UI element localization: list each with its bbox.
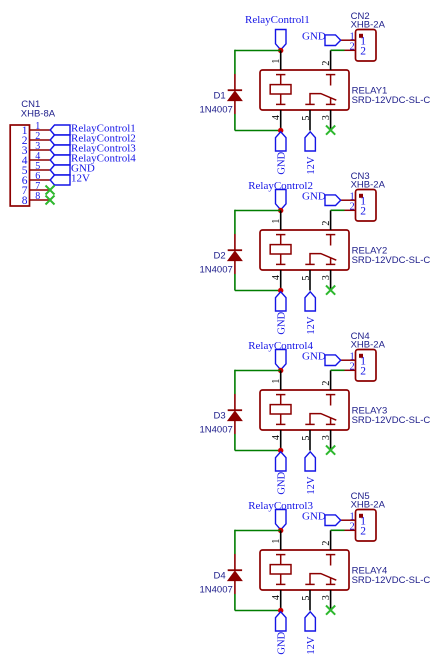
no-connect X at relay RELAY3 pin 3 <box>326 446 335 455</box>
svg-text:2: 2 <box>360 526 366 538</box>
junction dot at relay RELAY4 pin 4 / GND node <box>278 608 283 613</box>
svg-text:2: 2 <box>350 521 355 532</box>
power flag GND at CN3 pin 1 <box>325 195 341 206</box>
connector CN1 pin 4 <box>30 159 51 161</box>
net flag 12V at CN1 pin 6 <box>50 175 70 185</box>
svg-text:GND: GND <box>302 351 326 363</box>
relay RELAY4 body <box>260 550 349 590</box>
net flag RelayControl2 pointing down <box>276 190 287 210</box>
wire CN2 pin 2 to relay pin 2 <box>331 49 345 51</box>
svg-text:2: 2 <box>350 361 355 372</box>
relay RELAY3 switch contacts <box>305 395 336 425</box>
power flag 12V below relay RELAY4 <box>305 612 315 631</box>
svg-text:D4: D4 <box>214 570 226 581</box>
relay RELAY1 pin 3 <box>330 110 332 130</box>
svg-text:4: 4 <box>271 435 282 440</box>
svg-text:GND: GND <box>302 31 326 43</box>
power flag GND below relay RELAY4 <box>276 612 287 631</box>
diode D2 1N4007 <box>228 234 242 274</box>
svg-text:5: 5 <box>301 436 312 441</box>
svg-text:SRD-12VDC-SL-C: SRD-12VDC-SL-C <box>352 575 431 586</box>
wire CN3 pin 2 to relay pin 2 <box>331 209 345 211</box>
svg-text:SRD-12VDC-SL-C: SRD-12VDC-SL-C <box>352 255 431 266</box>
relay RELAY4 pin 2 <box>330 530 332 550</box>
connector CN2 pin 1 <box>340 39 356 41</box>
svg-text:3: 3 <box>321 115 332 120</box>
connector CN5 body <box>356 510 377 542</box>
relay RELAY2 pin 3 <box>330 270 332 290</box>
connector CN2 pin-1 marker <box>359 34 363 38</box>
junction dot at RelayControl2 node <box>278 208 283 213</box>
svg-text:2: 2 <box>350 41 355 52</box>
relay RELAY2 pin 2 <box>330 210 332 230</box>
no-connect X at relay RELAY1 pin 3 <box>326 126 335 135</box>
wire down to diode D2 cathode (vertical) <box>234 210 236 234</box>
power flag GND at CN4 pin 1 <box>325 355 341 366</box>
svg-text:8: 8 <box>35 191 40 202</box>
junction dot at RelayControl1 node <box>278 48 283 53</box>
relay RELAY1 pin 5 <box>309 110 311 131</box>
connector CN2 pin 2 <box>345 49 356 51</box>
wire RelayControl2 node to diode D2 cathode (horizontal) <box>235 210 281 212</box>
svg-text:D3: D3 <box>214 410 226 421</box>
relay RELAY1 body <box>260 70 349 110</box>
power flag GND below relay RELAY2 <box>276 292 287 311</box>
connector CN1 body <box>10 125 29 206</box>
wire down to diode D3 cathode (vertical) <box>234 370 236 394</box>
wire CN5 pin 2 to relay pin 2 <box>331 529 345 531</box>
wire diode D3 anode to relay pin 4 (horizontal) <box>235 450 281 452</box>
connector CN4 pin-1 marker <box>359 354 363 358</box>
svg-text:5: 5 <box>301 276 312 281</box>
svg-text:2: 2 <box>321 221 332 226</box>
svg-text:2: 2 <box>360 206 366 218</box>
svg-text:GND: GND <box>276 311 287 334</box>
relay RELAY3 pin 4 <box>280 430 282 451</box>
svg-text:5: 5 <box>301 596 312 601</box>
connector CN5 pin 1 <box>340 519 356 521</box>
wire RelayControl4 node to diode D3 cathode (horizontal) <box>235 370 281 372</box>
connector CN1 pin 2 <box>30 139 51 141</box>
svg-text:SRD-12VDC-SL-C: SRD-12VDC-SL-C <box>352 95 431 106</box>
svg-text:1N4007: 1N4007 <box>200 424 233 435</box>
connector CN1 pin 7 <box>30 189 51 191</box>
connector CN1 pin 8 <box>30 199 51 201</box>
connector CN3 pin 1 <box>340 199 356 201</box>
relay RELAY4 pin 4 <box>280 590 282 611</box>
relay RELAY4 pin 5 <box>309 590 311 611</box>
svg-text:XHB-8A: XHB-8A <box>21 109 56 120</box>
wire diode D2 anode down (vertical) <box>234 274 236 291</box>
svg-text:GND: GND <box>302 191 326 203</box>
net flag RelayControl3 pointing down <box>276 510 287 530</box>
net flag RelayControl3 at CN1 pin 3 <box>50 145 70 155</box>
relay RELAY1 pin 2 <box>330 50 332 70</box>
svg-text:1: 1 <box>271 59 282 64</box>
wire diode D4 anode down (vertical) <box>234 594 236 611</box>
diode D1 1N4007 <box>228 74 242 114</box>
relay RELAY1 switch contacts <box>305 75 336 105</box>
relay RELAY3 coil <box>270 395 291 425</box>
svg-text:2: 2 <box>321 541 332 546</box>
svg-text:3: 3 <box>321 435 332 440</box>
relay RELAY2 pin 4 <box>280 270 282 291</box>
svg-text:RelayControl1: RelayControl1 <box>245 14 310 26</box>
connector CN1 pin 6 <box>30 179 51 181</box>
svg-text:D2: D2 <box>214 250 226 261</box>
svg-text:12V: 12V <box>306 476 317 495</box>
power flag GND below relay RELAY3 <box>276 452 287 471</box>
svg-text:2: 2 <box>321 61 332 66</box>
svg-text:12V: 12V <box>71 173 90 185</box>
svg-text:12V: 12V <box>306 156 317 175</box>
relay RELAY4 pin 1 <box>280 531 282 551</box>
relay RELAY3 pin 3 <box>330 430 332 450</box>
connector CN4 pin 2 <box>345 369 356 371</box>
power flag GND at CN2 pin 1 <box>325 35 341 46</box>
diode D3 1N4007 <box>228 394 242 434</box>
net flag GND at CN1 pin 5 <box>50 165 70 175</box>
wire down to diode D4 cathode (vertical) <box>234 530 236 554</box>
junction dot at relay RELAY3 pin 4 / GND node <box>278 448 283 453</box>
no-connect X at CN1 pin 7 <box>46 186 55 195</box>
relay RELAY3 body <box>260 390 349 430</box>
no-connect X at CN1 pin 8 <box>46 196 55 205</box>
svg-text:GND: GND <box>276 631 287 654</box>
relay RELAY2 pin 1 <box>280 211 282 231</box>
connector CN5 pin-1 marker <box>359 514 363 518</box>
svg-text:GND: GND <box>276 151 287 174</box>
relay RELAY2 pin 5 <box>309 270 311 291</box>
relay RELAY4 switch contacts <box>305 555 336 585</box>
svg-text:2: 2 <box>360 46 366 58</box>
wire down to diode D1 cathode (vertical) <box>234 50 236 74</box>
connector CN4 pin 1 <box>340 359 356 361</box>
power flag 12V below relay RELAY1 <box>305 132 315 151</box>
svg-text:2: 2 <box>360 366 366 378</box>
wire diode D2 anode to relay pin 4 (horizontal) <box>235 290 281 292</box>
relay RELAY4 pin 3 <box>330 590 332 610</box>
relay RELAY1 coil <box>270 75 291 105</box>
connector CN1 pin 5 <box>30 169 51 171</box>
relay RELAY2 coil <box>270 235 291 265</box>
svg-text:4: 4 <box>271 595 282 600</box>
connector CN1 pin 1 <box>30 129 51 131</box>
junction dot at RelayControl4 node <box>278 368 283 373</box>
net flag RelayControl2 at CN1 pin 2 <box>50 135 70 145</box>
relay RELAY3 pin 1 <box>280 371 282 391</box>
no-connect X at relay RELAY2 pin 3 <box>326 286 335 295</box>
svg-text:GND: GND <box>302 511 326 523</box>
wire diode D1 anode down (vertical) <box>234 114 236 131</box>
svg-text:3: 3 <box>321 595 332 600</box>
power flag GND below relay RELAY1 <box>276 132 287 151</box>
junction dot at relay RELAY2 pin 4 / GND node <box>278 288 283 293</box>
svg-text:5: 5 <box>301 116 312 121</box>
relay RELAY1 pin 1 <box>280 51 282 71</box>
connector CN5 pin 2 <box>345 529 356 531</box>
connector CN3 pin-1 marker <box>359 194 363 198</box>
svg-text:1: 1 <box>271 219 282 224</box>
wire diode D3 anode down (vertical) <box>234 434 236 451</box>
svg-text:12V: 12V <box>306 316 317 335</box>
net flag RelayControl4 pointing down <box>276 350 287 370</box>
wire diode D4 anode to relay pin 4 (horizontal) <box>235 610 281 612</box>
connector CN3 pin 2 <box>345 209 356 211</box>
relay RELAY2 body <box>260 230 349 270</box>
svg-text:12V: 12V <box>306 636 317 655</box>
wire diode D1 anode to relay pin 4 (horizontal) <box>235 130 281 132</box>
svg-text:2: 2 <box>350 201 355 212</box>
power flag GND at CN5 pin 1 <box>325 515 341 526</box>
svg-text:SRD-12VDC-SL-C: SRD-12VDC-SL-C <box>352 415 431 426</box>
wire CN4 pin 2 to relay pin 2 <box>331 369 345 371</box>
wire RelayControl3 node to diode D4 cathode (horizontal) <box>235 530 281 532</box>
svg-text:1: 1 <box>271 379 282 384</box>
svg-text:1N4007: 1N4007 <box>200 584 233 595</box>
relay RELAY3 pin 5 <box>309 430 311 451</box>
net flag RelayControl4 at CN1 pin 4 <box>50 155 70 165</box>
junction dot at relay RELAY1 pin 4 / GND node <box>278 128 283 133</box>
svg-text:1N4007: 1N4007 <box>200 264 233 275</box>
svg-text:4: 4 <box>271 115 282 120</box>
svg-text:1: 1 <box>271 539 282 544</box>
power flag 12V below relay RELAY3 <box>305 452 315 471</box>
relay RELAY3 pin 2 <box>330 370 332 390</box>
connector CN4 body <box>356 350 377 382</box>
connector CN3 body <box>356 190 377 222</box>
relay RELAY4 coil <box>270 555 291 585</box>
svg-text:4: 4 <box>271 275 282 280</box>
svg-text:2: 2 <box>321 381 332 386</box>
relay RELAY2 switch contacts <box>305 235 336 265</box>
svg-text:1N4007: 1N4007 <box>200 104 233 115</box>
svg-text:GND: GND <box>276 471 287 494</box>
svg-text:8: 8 <box>22 195 28 207</box>
junction dot at RelayControl3 node <box>278 528 283 533</box>
wire RelayControl1 node to diode D1 cathode (horizontal) <box>235 50 281 52</box>
no-connect X at relay RELAY4 pin 3 <box>326 606 335 615</box>
net flag RelayControl1 at CN1 pin 1 <box>50 125 70 135</box>
relay RELAY1 pin 4 <box>280 110 282 131</box>
svg-text:3: 3 <box>321 275 332 280</box>
net flag RelayControl1 pointing down <box>276 30 287 50</box>
diode D4 1N4007 <box>228 554 242 594</box>
svg-text:D1: D1 <box>214 90 226 101</box>
connector CN1 pin 3 <box>30 149 51 151</box>
connector CN2 body <box>356 30 377 62</box>
power flag 12V below relay RELAY2 <box>305 292 315 311</box>
